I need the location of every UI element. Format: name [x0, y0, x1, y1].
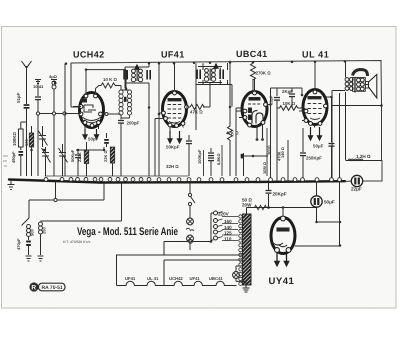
svg-text:1,2H Ω: 1,2H Ω — [356, 154, 371, 159]
svg-text:20W: 20W — [242, 203, 252, 208]
svg-text:UF41: UF41 — [190, 276, 201, 281]
svg-text:47K Ω: 47K Ω — [226, 131, 239, 136]
svg-text:UCH42: UCH42 — [169, 276, 183, 281]
svg-text:10 K Ω: 10 K Ω — [103, 77, 117, 82]
svg-text:UL 41: UL 41 — [302, 50, 329, 60]
svg-text:200pF: 200pF — [127, 121, 140, 126]
svg-text:500: 500 — [30, 229, 35, 236]
svg-text:160: 160 — [224, 219, 232, 224]
svg-text:4μΩ: 4μΩ — [49, 74, 58, 79]
svg-text:20KpF: 20KpF — [273, 192, 287, 197]
svg-text:22μF: 22μF — [351, 187, 362, 192]
svg-text:UY41: UY41 — [269, 276, 295, 287]
svg-text:125: 125 — [224, 231, 232, 236]
svg-text:UF41: UF41 — [161, 50, 185, 60]
svg-text:10K Ω: 10K Ω — [283, 101, 296, 106]
svg-text:490pF: 490pF — [11, 151, 16, 163]
svg-text:10μΩ: 10μΩ — [33, 84, 44, 89]
svg-text:300Ω: 300Ω — [267, 145, 272, 155]
svg-text:UCH42: UCH42 — [73, 50, 105, 60]
svg-text:100KΩ: 100KΩ — [12, 132, 17, 146]
svg-text:10M Ω: 10M Ω — [262, 162, 267, 174]
svg-text:100KpF: 100KpF — [197, 149, 202, 164]
svg-text:2KpF: 2KpF — [282, 89, 293, 94]
svg-text:47K Ω: 47K Ω — [190, 110, 203, 115]
svg-text:110: 110 — [224, 237, 232, 242]
svg-text:Vega - Mod. 511 Serie Anie: Vega - Mod. 511 Serie Anie — [77, 226, 178, 238]
svg-text:32H Ω: 32H Ω — [166, 164, 179, 169]
svg-text:500: 500 — [24, 139, 29, 146]
svg-text:UBC41: UBC41 — [209, 276, 223, 281]
svg-text:15pF: 15pF — [269, 95, 274, 105]
svg-text:250: 250 — [42, 227, 47, 234]
svg-text:50pF: 50pF — [88, 137, 99, 142]
svg-text:220V: 220V — [218, 212, 230, 217]
svg-text:UF41: UF41 — [125, 276, 136, 281]
svg-text:22K Ω: 22K Ω — [103, 150, 108, 162]
svg-text:470pF: 470pF — [16, 238, 21, 250]
svg-text:UBC41: UBC41 — [236, 49, 268, 59]
svg-text:R: R — [31, 285, 36, 292]
svg-text:220K: 220K — [77, 152, 82, 162]
svg-text:RA 70-51: RA 70-51 — [42, 285, 63, 291]
svg-text:250KpF: 250KpF — [306, 156, 322, 161]
svg-text:50μF: 50μF — [313, 144, 324, 149]
svg-text:50KpF: 50KpF — [166, 145, 180, 150]
svg-text:270K Ω: 270K Ω — [256, 71, 272, 76]
svg-text:UL 41: UL 41 — [147, 276, 159, 281]
svg-text:6,8KΩ: 6,8KΩ — [216, 153, 221, 165]
svg-text:50μF: 50μF — [324, 200, 335, 205]
svg-text:H.T. 470/520 Kc/s: H.T. 470/520 Kc/s — [63, 240, 90, 244]
svg-text:140 Ω: 140 Ω — [280, 147, 285, 158]
svg-text:50KpF: 50KpF — [70, 149, 75, 162]
svg-text:140: 140 — [224, 225, 232, 230]
svg-text:51pF: 51pF — [16, 92, 21, 103]
